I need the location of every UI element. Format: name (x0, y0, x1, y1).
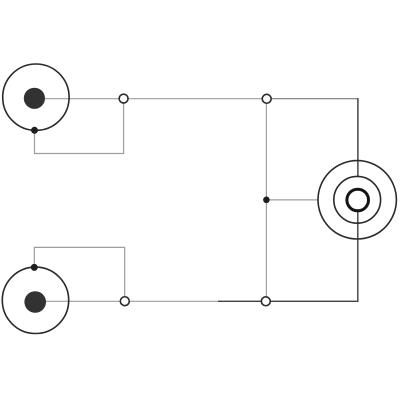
junction dot (263, 197, 270, 204)
wire: RCA1 shield loop (35, 103, 124, 153)
node C (120, 297, 129, 306)
jack plug tip contact (347, 189, 369, 211)
RCA plug 1 pin (24, 88, 45, 109)
node B (262, 94, 271, 103)
wire: middle vertical bus (node B to node D) (265, 103, 267, 296)
wire: junction to jack sleeve (266, 199, 318, 201)
wire: top signal (RCA1 pin to node A to node B) (45, 98, 267, 100)
RCA plug 1 body (3, 64, 69, 130)
node A (119, 94, 128, 103)
wire: top signal right segment (node B to corner) (267, 98, 358, 100)
RCA plug 1 shield contact (31, 127, 38, 134)
wire: right vertical to jack ring (357, 98, 359, 177)
RCA plug 2 body (2, 267, 68, 333)
RCA plug 2 pin (24, 291, 46, 313)
wire: RCA2 shield loop (34, 247, 124, 296)
RCA plug 2 shield contact (31, 264, 38, 271)
wire: bottom signal (RCA2 pin to midpoint) (45, 300, 219, 302)
node D (261, 297, 270, 306)
wire: bottom signal dark segment to jack tip (218, 211, 358, 301)
jack plug sleeve ring (318, 161, 396, 239)
jack plug ring contact (334, 176, 381, 223)
